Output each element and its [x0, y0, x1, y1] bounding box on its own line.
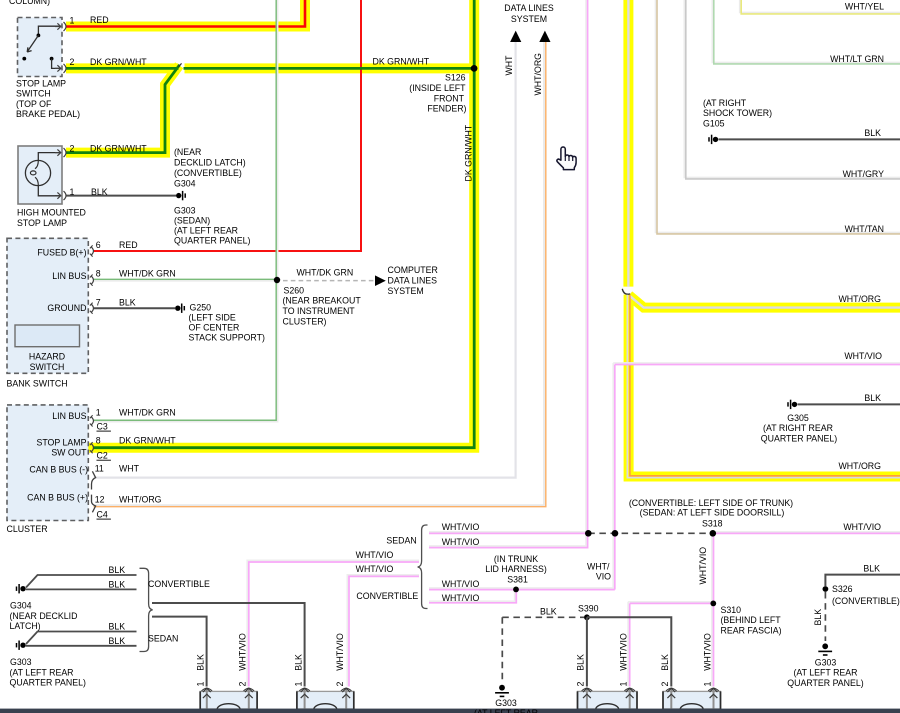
svg-text:SWITCH: SWITCH	[30, 362, 65, 372]
highlight band: RED circuit (stop lamp switch pin1 to top)	[66, 0, 305, 27]
wire WHT/VIO from S318 to right edge	[713, 531, 900, 533]
svg-text:LATCH): LATCH)	[10, 621, 41, 631]
svg-text:G303: G303	[495, 698, 517, 708]
svg-text:BLK: BLK	[660, 654, 670, 671]
splice S326	[823, 586, 829, 592]
svg-text:WHT/VIO: WHT/VIO	[702, 633, 712, 671]
svg-text:BRAKE PEDAL): BRAKE PEDAL)	[16, 109, 80, 119]
wire WHT/VIO sedan line A down at x=248.8 to connector 1 pin 2	[247, 560, 419, 686]
arrow to computer data lines system	[375, 275, 386, 286]
wire BLK S326 from right edge down	[825, 575, 900, 586]
mouse cursor (hand pointer)	[557, 147, 576, 170]
svg-text:WHT: WHT	[119, 464, 140, 474]
wire WHT/GRY	[684, 0, 900, 177]
hop mark at WHT/ORG split	[622, 289, 630, 294]
svg-text:OF CENTER: OF CENTER	[189, 322, 240, 332]
svg-text:HIGH MOUNTED: HIGH MOUNTED	[17, 207, 86, 217]
svg-text:WHT/TAN: WHT/TAN	[845, 224, 884, 234]
connector 1 box	[200, 691, 257, 709]
svg-text:DK GRN/WHT: DK GRN/WHT	[373, 57, 430, 67]
svg-text:S260: S260	[284, 285, 305, 295]
wire DK GRN/WHT horizontal from switch pin 2 to S126	[66, 67, 474, 70]
splice S310	[710, 601, 716, 607]
svg-text:QUARTER PANEL): QUARTER PANEL)	[761, 433, 837, 443]
svg-text:WHT/ORG: WHT/ORG	[119, 495, 162, 505]
wire WHT/VIO S318 down through S310 to connector 4 pin 1	[711, 533, 713, 686]
svg-text:WHT/: WHT/	[587, 562, 610, 572]
svg-text:WHT/VIO: WHT/VIO	[843, 522, 881, 532]
wire BLK from lamp pin 1 to G304	[66, 195, 176, 197]
wire WHT/DK GRN LIN BUS: bank pin 8 to S260, up and down to cluster pin 1	[94, 0, 277, 420]
svg-text:(NEAR DECKLID: (NEAR DECKLID	[10, 611, 78, 621]
svg-text:(TOP OF: (TOP OF	[16, 99, 52, 109]
svg-text:(SEDAN): (SEDAN)	[174, 215, 210, 225]
svg-text:QUARTER PANEL): QUARTER PANEL)	[10, 678, 86, 688]
connector 3 pin 2 entry	[582, 688, 593, 710]
svg-text:12: 12	[95, 495, 105, 505]
svg-text:DK GRN/WHT: DK GRN/WHT	[90, 57, 147, 67]
svg-text:LIN BUS: LIN BUS	[52, 411, 86, 421]
wire WHT/YEL top right	[740, 0, 900, 12]
wire RED from stop lamp switch pin 1 up at x=305	[66, 0, 305, 27]
cluster pin 12 symbol	[92, 495, 96, 513]
wire WHT diagonal + horizontal to right edge	[629, 296, 900, 308]
lamp circle	[25, 160, 50, 185]
connector 2 pin 1 entry	[299, 688, 310, 710]
svg-text:(LEFT SIDE: (LEFT SIDE	[189, 312, 236, 322]
wire WHT/ORG vertical + horizontal (right rear)	[627, 295, 900, 478]
svg-text:S126: S126	[445, 73, 466, 83]
svg-text:LID HARNESS): LID HARNESS)	[485, 564, 547, 574]
svg-text:G303: G303	[174, 205, 196, 215]
splice dot left of S318	[585, 530, 592, 537]
svg-text:DK GRN/WHT: DK GRN/WHT	[463, 124, 473, 181]
svg-text:S318: S318	[702, 518, 723, 528]
merge mark at branch junction	[178, 63, 181, 66]
svg-text:(AT LEFT REAR: (AT LEFT REAR	[10, 667, 74, 677]
svg-text:BLK: BLK	[576, 654, 586, 671]
splice dot middle	[612, 530, 619, 537]
svg-text:G105: G105	[703, 118, 725, 128]
ground G305	[788, 400, 797, 409]
svg-text:STOP LAMP: STOP LAMP	[16, 79, 66, 89]
svg-text:CAN B BUS (-): CAN B BUS (-)	[29, 465, 88, 475]
cluster pin 8 symbol	[90, 442, 94, 453]
svg-text:(NEAR: (NEAR	[174, 147, 201, 157]
highlight band: DK GRN/WHT horizontal pin2 to S126	[66, 63, 178, 73]
wire WHT/VIO convertible line B down at x=349 to connector 2 pin 2	[347, 575, 419, 687]
svg-text:HAZARD: HAZARD	[29, 352, 65, 362]
dashed BLK S326 down to G303	[824, 592, 826, 641]
wire WHT/VIO brace line L2 y=547.5 turning up at x=587.5	[429, 533, 586, 546]
svg-text:WHT/DK GRN: WHT/DK GRN	[119, 408, 176, 418]
svg-text:(CONVERTIBLE): (CONVERTIBLE)	[832, 596, 900, 606]
brace right (sedan/convertible WHT/VIO group)	[418, 525, 428, 609]
svg-text:CAN B BUS (+): CAN B BUS (+)	[27, 493, 88, 503]
svg-text:1: 1	[196, 682, 206, 687]
svg-text:G303: G303	[10, 657, 32, 667]
wire BLK S390 to connector 3 pin 2	[586, 617, 588, 686]
svg-text:2: 2	[70, 57, 75, 67]
svg-text:BLK: BLK	[109, 622, 126, 632]
svg-text:COMPUTER: COMPUTER	[388, 265, 438, 275]
wire WHT right-top vertical core	[627, 0, 629, 287]
ground G303 (sedan, bottom center)	[495, 685, 509, 697]
svg-text:G250: G250	[190, 303, 212, 313]
splice S318	[710, 530, 717, 537]
svg-text:DK GRN/WHT: DK GRN/WHT	[90, 144, 147, 154]
svg-text:7: 7	[96, 298, 101, 308]
svg-text:BLK: BLK	[119, 298, 136, 308]
svg-text:WHT/VIO: WHT/VIO	[442, 579, 480, 589]
ground G250	[175, 304, 184, 313]
switch internal: pin1 lead	[38, 26, 61, 35]
svg-text:(AT LEFT REAR: (AT LEFT REAR	[793, 668, 857, 678]
svg-text:BLK: BLK	[109, 565, 126, 575]
svg-text:WHT/YEL: WHT/YEL	[845, 2, 884, 12]
wire WHT/ORG CAN B BUS(+): cluster pin 12 right, up to data lines arrow	[94, 42, 545, 505]
svg-text:WHT/ORG: WHT/ORG	[838, 294, 881, 304]
svg-text:2: 2	[70, 144, 75, 154]
svg-text:CLUSTER): CLUSTER)	[283, 316, 327, 326]
svg-text:QUARTER PANEL): QUARTER PANEL)	[787, 678, 863, 688]
lamp pin 2 symbol	[55, 148, 66, 157]
wire WHT/VIO brace line L4 y=602.8 turning up at x=516 to S381	[429, 590, 515, 602]
connector 1 pin 2 entry	[244, 688, 255, 710]
wire DK GRN/WHT vertical S126 down to cluster pin 8	[94, 0, 475, 448]
wire WHT/VIO brace line L1 y=533	[429, 531, 588, 533]
svg-text:WHT/VIO: WHT/VIO	[442, 537, 480, 547]
stop lamp switch pin 2 symbol	[55, 64, 66, 73]
hazard switch inner box	[15, 325, 80, 347]
svg-text:GROUND: GROUND	[47, 303, 86, 313]
svg-text:CONVERTIBLE: CONVERTIBLE	[148, 579, 210, 589]
svg-text:WHT/DK GRN: WHT/DK GRN	[297, 267, 354, 277]
svg-text:LIN BUS: LIN BUS	[52, 271, 86, 281]
connector 3 pin 1 entry	[624, 688, 635, 710]
svg-text:6: 6	[96, 240, 101, 250]
cluster pin 1 symbol	[90, 415, 94, 426]
svg-text:STACK SUPPORT): STACK SUPPORT)	[189, 332, 265, 342]
svg-text:1: 1	[293, 682, 303, 687]
svg-text:1: 1	[96, 408, 101, 418]
component: high mounted stop lamp box	[18, 146, 62, 204]
svg-text:DK GRN/WHT: DK GRN/WHT	[119, 435, 176, 445]
connector 2 box	[297, 691, 354, 709]
svg-text:11: 11	[95, 464, 104, 474]
svg-text:S390: S390	[578, 604, 599, 614]
svg-text:(SEDAN: AT LEFT SIDE DOORSILL): (SEDAN: AT LEFT SIDE DOORSILL)	[640, 508, 785, 518]
svg-text:C3: C3	[97, 422, 108, 432]
svg-text:FUSED B(+): FUSED B(+)	[37, 247, 86, 257]
svg-text:(CONVERTIBLE): (CONVERTIBLE)	[174, 168, 242, 178]
svg-text:SYSTEM: SYSTEM	[388, 286, 424, 296]
svg-text:STOP LAMP: STOP LAMP	[17, 218, 67, 228]
highlight band: WHT/ORG vertical down to right horizontal	[629, 295, 900, 477]
svg-text:S326: S326	[832, 584, 853, 594]
connector 4 pin 1 entry	[708, 688, 719, 710]
svg-text:G304: G304	[10, 601, 32, 611]
svg-text:1: 1	[70, 187, 75, 197]
highlight band: high mounted stop lamp branch	[66, 65, 179, 152]
splice S126	[471, 65, 478, 72]
svg-text:BLK: BLK	[109, 579, 126, 589]
connector 4 box	[663, 691, 721, 709]
svg-text:SEDAN: SEDAN	[386, 536, 416, 546]
wire BLK S390 to connector 4 pin 2	[587, 617, 671, 686]
component: cluster dashed box	[7, 405, 88, 521]
splice S390	[584, 614, 590, 620]
wire RED vertical x=361 down to bank switch FUSED B(+)	[94, 0, 361, 251]
svg-text:WHT/VIO: WHT/VIO	[335, 633, 345, 671]
svg-text:WHT/VIO: WHT/VIO	[844, 351, 882, 361]
splice S260	[274, 277, 280, 283]
svg-text:G304: G304	[174, 178, 196, 188]
svg-text:WHT/DK GRN: WHT/DK GRN	[119, 268, 176, 278]
svg-text:VIO: VIO	[596, 571, 611, 581]
wire WHT/VIO horizontal y=364 to right edge and vertical x=614.8	[613, 363, 900, 590]
svg-text:REAR FASCIA): REAR FASCIA)	[721, 626, 782, 636]
svg-text:BANK SWITCH: BANK SWITCH	[7, 378, 68, 388]
svg-text:WHT/VIO: WHT/VIO	[442, 522, 480, 532]
svg-text:2: 2	[238, 682, 248, 687]
svg-text:(AT LEFT REAR: (AT LEFT REAR	[174, 225, 238, 235]
wire DK GRN/WHT branch from high mounted stop lamp	[66, 65, 180, 153]
dashed BLK G303 to S390	[502, 617, 584, 683]
svg-text:WHT/VIO: WHT/VIO	[619, 633, 629, 671]
splice S381	[513, 587, 519, 593]
wire BLK G305 to right edge	[798, 403, 900, 405]
svg-text:SW OUT: SW OUT	[51, 448, 87, 458]
svg-text:DATA LINES: DATA LINES	[504, 3, 554, 13]
svg-text:2: 2	[335, 682, 345, 687]
ground G303 (convertible, right)	[818, 643, 832, 655]
wire WHT/TAN	[656, 0, 900, 232]
brace left (convertible/sedan grounds)	[140, 568, 153, 651]
svg-text:WHT/ORG: WHT/ORG	[533, 53, 543, 96]
svg-text:FENDER): FENDER)	[427, 104, 466, 114]
svg-text:(IN TRUNK: (IN TRUNK	[494, 554, 538, 564]
svg-text:WHT/VIO: WHT/VIO	[698, 547, 708, 585]
svg-text:(INSIDE LEFT: (INSIDE LEFT	[409, 83, 466, 93]
svg-text:WHT/LT GRN: WHT/LT GRN	[830, 54, 884, 64]
wire WHT/VIO S310 branch left and down to connector 3 pin 1	[628, 602, 713, 687]
lamp pin 1 symbol	[55, 191, 66, 200]
svg-text:BLK: BLK	[864, 393, 881, 403]
arrow up WHT/ORG	[539, 31, 550, 42]
svg-text:CONVERTIBLE: CONVERTIBLE	[356, 591, 418, 601]
connector 2 pin 2 entry	[341, 688, 352, 710]
svg-text:RED: RED	[90, 15, 109, 25]
ground G303 bottom left	[17, 641, 26, 650]
svg-text:SEDAN: SEDAN	[148, 633, 178, 643]
svg-text:C2: C2	[97, 451, 108, 461]
svg-text:G305: G305	[787, 413, 809, 423]
svg-text:CLUSTER: CLUSTER	[7, 524, 48, 534]
svg-text:WHT/VIO: WHT/VIO	[442, 593, 480, 603]
svg-text:S381: S381	[507, 574, 528, 584]
wire WHT/VIO long vertical x=587 from top to S318 dashed row	[585, 0, 587, 533]
ground G105	[709, 135, 718, 144]
svg-text:WHT/ORG: WHT/ORG	[838, 461, 881, 471]
svg-text:WHT/VIO: WHT/VIO	[356, 550, 394, 560]
svg-text:1: 1	[70, 15, 75, 25]
svg-text:SHOCK TOWER): SHOCK TOWER)	[703, 108, 772, 118]
svg-text:2: 2	[660, 682, 670, 687]
svg-text:BLK: BLK	[863, 563, 880, 573]
bank switch pin 6 symbol	[90, 245, 94, 256]
component: stop lamp switch dashed box	[18, 18, 63, 77]
ground G304 (near decklid latch)	[176, 191, 185, 200]
svg-text:RED: RED	[119, 240, 138, 250]
svg-text:SYSTEM: SYSTEM	[511, 14, 547, 24]
svg-text:1: 1	[619, 682, 629, 687]
svg-text:8: 8	[96, 268, 101, 278]
wire BLK bank switch pin 7 to G250	[94, 307, 175, 309]
lamp leads to pins	[38, 153, 61, 196]
switch internal: pin2 lead	[52, 59, 62, 69]
svg-text:BLK: BLK	[293, 654, 303, 671]
svg-text:(AT RIGHT REAR: (AT RIGHT REAR	[763, 423, 833, 433]
svg-text:(CONVERTIBLE: LEFT SIDE OF TRU: (CONVERTIBLE: LEFT SIDE OF TRUNK)	[629, 498, 793, 508]
svg-text:TO INSTRUMENT: TO INSTRUMENT	[283, 306, 356, 316]
svg-text:STOP LAMP: STOP LAMP	[36, 438, 86, 448]
svg-text:SWITCH: SWITCH	[16, 89, 51, 99]
svg-text:(BEHIND LEFT: (BEHIND LEFT	[721, 615, 782, 625]
wire BLK pair from ground G303 (sedan)	[26, 632, 137, 646]
wire BLK from left brace to connector 1 pin 1	[152, 617, 207, 687]
arrow up WHT	[510, 31, 521, 42]
switch contact dot upper	[37, 34, 41, 38]
svg-text:WHT/VIO: WHT/VIO	[356, 564, 394, 574]
svg-text:BLK: BLK	[540, 606, 557, 616]
svg-text:BLK: BLK	[196, 654, 206, 671]
connector 3 box	[578, 691, 638, 709]
bank switch pin 7 symbol	[90, 303, 94, 314]
connector 1 pin 1 entry	[202, 688, 213, 710]
highlight band: DK GRN/WHT vertical S126 top to cluster pin8	[66, 0, 474, 448]
connector 4 pin 2 entry	[666, 688, 677, 710]
wire WHT CAN B BUS(-): cluster pin 11 right, up to data lines arrow	[94, 42, 516, 478]
svg-text:(NEAR BREAKOUT: (NEAR BREAKOUT	[283, 296, 362, 306]
svg-text:S310: S310	[721, 605, 742, 615]
svg-text:DATA LINES: DATA LINES	[388, 275, 438, 285]
switch arm with arrowhead	[27, 35, 38, 52]
wire BLK pair from ground G304 (convertible)	[26, 575, 137, 589]
wire WHT/VIO brace line L3 y=589.5 through S381 to x=614.8	[429, 587, 613, 589]
svg-text:2: 2	[576, 682, 586, 687]
highlight band: WHT diagonal to right horizontal	[629, 295, 900, 307]
svg-text:(AT RIGHT: (AT RIGHT	[703, 98, 747, 108]
svg-text:BLK: BLK	[109, 636, 126, 646]
lamp filament	[35, 161, 38, 169]
switch contact dot lower left	[22, 57, 26, 61]
dashed splice row S318	[588, 532, 713, 534]
wire WHT/LT GRN	[712, 0, 900, 62]
svg-text:BLK: BLK	[813, 609, 823, 626]
svg-text:WHT: WHT	[504, 55, 514, 76]
svg-text:WHT/VIO: WHT/VIO	[238, 633, 248, 671]
svg-text:DECKLID LATCH): DECKLID LATCH)	[174, 157, 246, 167]
svg-text:WHT/GRY: WHT/GRY	[843, 169, 885, 179]
svg-text:G303: G303	[815, 657, 837, 667]
highlight band: WHT vertical right top	[623, 0, 633, 287]
svg-text:COLUMN): COLUMN)	[9, 0, 50, 6]
svg-text:C4: C4	[97, 510, 108, 520]
svg-text:1: 1	[702, 682, 712, 687]
svg-text:QUARTER PANEL): QUARTER PANEL)	[174, 235, 250, 245]
svg-text:BLK: BLK	[91, 187, 108, 197]
dashed lead S260 to computer data lines system	[283, 280, 374, 282]
switch contact dot pin2	[50, 57, 54, 61]
wire BLK G105 to right edge	[719, 138, 900, 140]
component: bank switch dashed box	[7, 238, 88, 373]
svg-text:BLK: BLK	[864, 128, 881, 138]
svg-text:(AT LEFT REAR: (AT LEFT REAR	[474, 708, 538, 713]
svg-text:FRONT: FRONT	[434, 93, 465, 103]
bottom application bar	[0, 709, 900, 713]
svg-text:8: 8	[96, 435, 101, 445]
bank switch pin 8 symbol	[90, 275, 94, 286]
wire BLK from left brace to connector 2 pin 1	[152, 603, 305, 687]
stop lamp switch pin 1 symbol	[55, 22, 66, 31]
ground G304 bottom left	[17, 584, 26, 593]
cluster pin 11 symbol	[92, 471, 96, 489]
